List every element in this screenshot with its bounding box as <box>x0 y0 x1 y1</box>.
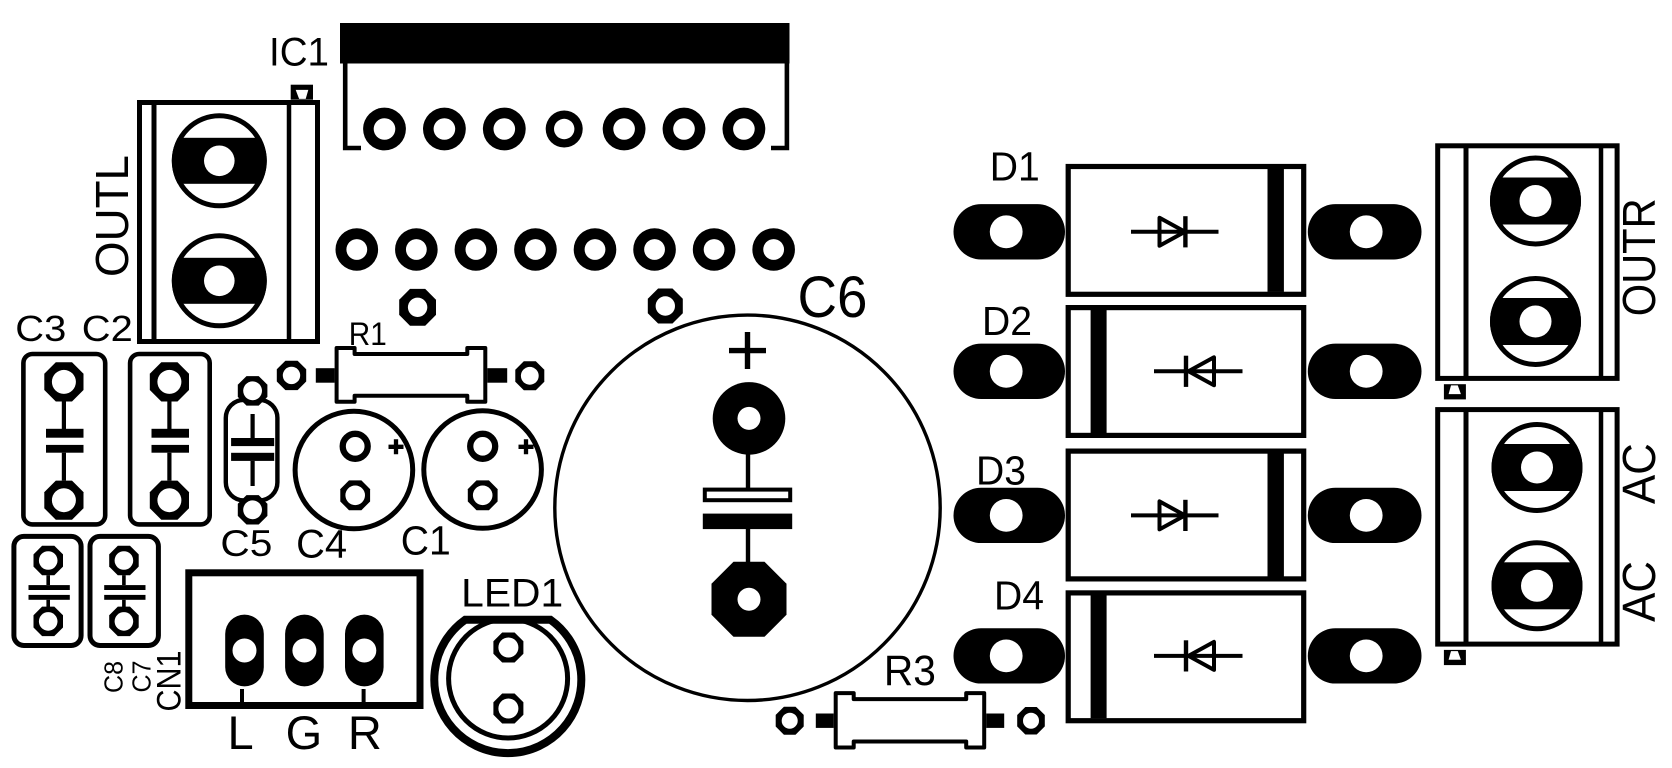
resistor R1 body <box>337 348 486 402</box>
diode D3 symbol <box>1131 500 1219 531</box>
op-amp IC1 body bar <box>340 23 790 64</box>
connector AC body <box>1438 409 1617 644</box>
svg-text:G: G <box>286 706 323 759</box>
capacitor C7 label <box>126 661 156 693</box>
diode D3 label <box>976 448 1026 494</box>
connector AC pad 2 <box>1489 543 1585 629</box>
diode D3 body <box>1068 451 1304 579</box>
CN1 pin label R <box>348 706 382 759</box>
capacitor C8 label <box>99 661 129 693</box>
svg-text:R3: R3 <box>884 647 936 695</box>
LED LED1 body <box>434 619 581 753</box>
svg-text:D4: D4 <box>994 572 1044 618</box>
diode D3 pad cathode-side <box>1308 488 1422 543</box>
diode D2 symbol <box>1154 356 1243 387</box>
capacitor C3 body <box>23 354 105 524</box>
resistor R3 label <box>884 647 936 695</box>
connector CN1 pin R pad <box>345 615 384 687</box>
connector OUTR pin 1 marker <box>1444 384 1466 399</box>
CN1 pin 1 tick <box>240 689 244 704</box>
CN1 pin label G <box>286 706 323 759</box>
svg-text:D1: D1 <box>990 144 1040 190</box>
svg-text:C6: C6 <box>798 265 868 330</box>
svg-text:OUTR: OUTR <box>1613 198 1665 316</box>
svg-text:LED1: LED1 <box>461 572 563 616</box>
capacitor C6 plus mark <box>729 332 766 369</box>
connector AC pin 1 marker <box>1444 650 1466 665</box>
resistor R1 lead right <box>487 368 507 383</box>
connector AC label upper <box>1613 443 1665 504</box>
capacitor C6 label <box>798 265 868 330</box>
diode D1 body <box>1068 167 1304 295</box>
capacitor C6 pad + <box>713 382 786 455</box>
capacitor C6 symbol <box>703 454 792 563</box>
svg-text:C1: C1 <box>401 518 451 564</box>
diode D2 body <box>1068 308 1304 436</box>
diode D1 symbol <box>1131 216 1219 247</box>
diode D2 label <box>982 298 1032 344</box>
capacitor C7 body <box>90 536 158 645</box>
connector OUTL label <box>86 155 138 277</box>
connector AC pad 1 <box>1489 425 1585 511</box>
diode D1 pad cathode-side <box>1308 204 1422 259</box>
diode D1 label <box>990 144 1040 190</box>
diode D2 pad anode-side <box>954 344 1066 399</box>
resistor R1 lead left <box>316 368 335 383</box>
svg-text:C5: C5 <box>220 523 272 564</box>
connector OUTR pad 2 <box>1488 279 1584 365</box>
diode D4 symbol <box>1154 640 1243 671</box>
IC1 pin row 1 (7 pads) <box>363 108 765 151</box>
connector OUTL pad 2 <box>169 236 269 326</box>
connector CN1 label <box>150 651 188 712</box>
resistor R1 pad right <box>515 361 544 390</box>
capacitor C1 label <box>401 518 451 564</box>
svg-text:OUTL: OUTL <box>86 155 138 277</box>
via pad node B <box>648 289 683 324</box>
capacitor C1 body <box>424 411 542 529</box>
svg-text:C2: C2 <box>82 308 133 349</box>
capacitor C5 body <box>226 376 278 524</box>
diode D1 pad anode-side <box>954 204 1066 259</box>
resistor R3 pad right <box>1017 707 1045 735</box>
connector OUTL pin 1 marker <box>291 85 313 100</box>
resistor R1 label <box>349 316 387 352</box>
LED LED1 label <box>461 572 563 616</box>
svg-text:AC: AC <box>1613 561 1665 622</box>
capacitor C4 label <box>296 523 347 567</box>
svg-text:D3: D3 <box>976 448 1026 494</box>
svg-text:IC1: IC1 <box>269 31 329 75</box>
CN1 pin 3 tick <box>362 689 366 704</box>
connector OUTL body <box>140 102 318 342</box>
connector CN1 pin L pad <box>225 615 264 687</box>
diode D2 pad cathode-side <box>1308 344 1422 399</box>
svg-text:L: L <box>228 706 254 759</box>
op-amp IC1 label <box>269 31 329 75</box>
connector AC label lower <box>1613 561 1665 622</box>
resistor R1 pad left <box>277 361 306 390</box>
capacitor C5 label <box>220 523 272 564</box>
capacitor C4 body <box>295 411 413 529</box>
diode D4 label <box>994 572 1044 618</box>
capacitor C6 pad - <box>712 562 787 637</box>
resistor R3 lead right <box>986 714 1004 728</box>
via pad node A <box>399 289 436 326</box>
resistor R3 body <box>836 693 985 747</box>
diode D4 body <box>1068 593 1304 721</box>
capacitor C2 label <box>82 308 133 349</box>
connector OUTR body <box>1438 145 1617 379</box>
resistor R3 pad left <box>776 707 804 735</box>
diode D4 pad cathode-side <box>1308 628 1422 683</box>
op-amp IC1 body bracket outline <box>345 64 787 149</box>
diode D4 pad anode-side <box>954 628 1066 683</box>
capacitor C2 body <box>130 354 210 524</box>
connector OUTL pad 1 <box>169 116 269 206</box>
connector CN1 body <box>189 573 420 706</box>
capacitor C3 label <box>15 308 66 349</box>
svg-text:R: R <box>348 706 382 759</box>
connector CN1 pin G pad <box>285 615 324 687</box>
connector OUTR label <box>1613 198 1665 316</box>
svg-text:C3: C3 <box>15 308 66 349</box>
IC1 pin row 2 (8 pads) <box>336 228 795 271</box>
svg-text:C8: C8 <box>99 661 129 693</box>
svg-text:AC: AC <box>1613 443 1665 504</box>
svg-text:D2: D2 <box>982 298 1032 344</box>
diode D3 pad anode-side <box>954 488 1066 543</box>
connector OUTR pad 1 <box>1488 158 1584 244</box>
resistor R3 lead left <box>816 714 834 728</box>
capacitor C6 body outline <box>555 315 940 700</box>
CN1 pin label L <box>228 706 254 759</box>
svg-text:CN1: CN1 <box>150 651 188 712</box>
capacitor C8 body <box>14 536 81 645</box>
